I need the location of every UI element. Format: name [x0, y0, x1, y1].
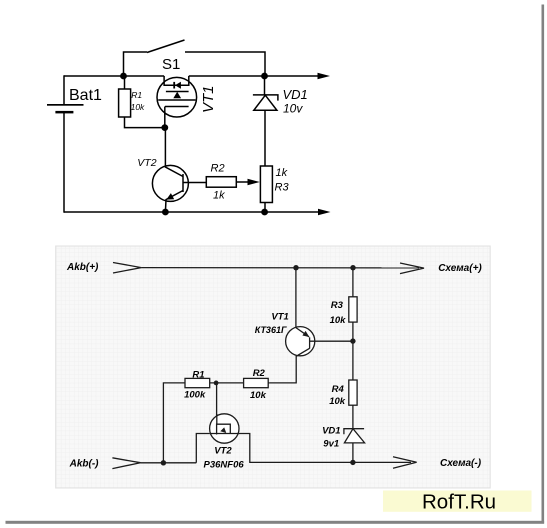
svg-text:R4: R4 [332, 384, 345, 395]
battery Bat1 plate long [47, 104, 84, 106]
wire gate down [216, 383, 218, 424]
VT2 base bar [182, 174, 184, 192]
VT1 left drain lead [164, 76, 189, 85]
svg-text:R3: R3 [331, 300, 344, 311]
wire VT1b emitter up [295, 268, 297, 328]
node junction rail-S1-VD1 [261, 73, 268, 80]
wire Akb(+) chevron [113, 263, 141, 274]
node akb+ VT1 [293, 265, 298, 270]
zener VD1b bar [344, 429, 364, 435]
node base divider [350, 338, 355, 343]
resistor R2 [206, 177, 236, 188]
svg-text:1k: 1k [213, 190, 225, 202]
svg-text:Akb(-): Akb(-) [69, 458, 100, 469]
node junction gate-R1 [161, 124, 168, 131]
VT2b cell bracket [217, 424, 231, 434]
node junction rail-S1-R1 [120, 73, 127, 80]
svg-text:10v: 10v [283, 102, 303, 116]
arrow top rail output [318, 73, 331, 80]
svg-text:S1: S1 [162, 56, 180, 73]
wire drain step [239, 434, 353, 463]
svg-text:RofT.Ru: RofT.Ru [422, 491, 496, 514]
VT1 body diode bar [173, 82, 175, 89]
wire VD1b bottom [352, 443, 354, 463]
wire VD1 to R3 [264, 110, 266, 166]
svg-text:Bat1: Bat1 [69, 87, 102, 104]
svg-text:Схема(-): Схема(-) [440, 458, 482, 469]
svg-text:VT1: VT1 [271, 312, 288, 323]
VT1b base wire [310, 340, 353, 342]
VT1b emitter arrow [302, 331, 309, 337]
zener VD1 triangle [254, 95, 277, 110]
svg-text:P36NF06: P36NF06 [204, 459, 245, 470]
resistor R3 potentiometer [260, 166, 272, 203]
svg-text:КТ361Г: КТ361Г [255, 325, 287, 335]
svg-text:R1: R1 [131, 90, 142, 100]
VT1b collector diagonal [270, 348, 310, 383]
wire top rail lower [141, 267, 419, 269]
VT1 source bar [165, 106, 189, 108]
wire R1 bottom to gate node [125, 117, 165, 128]
page shadow bottom [6, 521, 545, 524]
svg-text:Akb(+): Akb(+) [66, 262, 99, 273]
switch S1 [124, 40, 266, 76]
transistor VT2 [152, 165, 188, 201]
svg-text:9v1: 9v1 [323, 439, 339, 450]
resistor R3b [349, 297, 357, 322]
wire bottom rail [64, 211, 318, 213]
svg-text:R1: R1 [192, 369, 204, 380]
wire R4 bottom [352, 405, 354, 428]
VT2b arrow [220, 427, 226, 433]
wire top rail [64, 75, 164, 77]
VT1 channel bar2 [166, 91, 189, 93]
wire gate node to VT2 collector [164, 128, 166, 166]
arrow chevron out top [400, 263, 424, 274]
wire source step [196, 434, 209, 463]
arrow into R3 [248, 179, 260, 185]
svg-text:10k: 10k [329, 396, 346, 407]
svg-text:VD1: VD1 [283, 87, 308, 102]
svg-text:100k: 100k [184, 390, 206, 401]
resistor R2b [244, 378, 269, 387]
VT1 up arrow [173, 92, 181, 98]
VT1b emitter diagonal [296, 328, 309, 337]
svg-text:VT2: VT2 [214, 445, 232, 456]
watermark bar [383, 491, 532, 512]
node R3 bottom rail [261, 209, 268, 216]
VT1 gate lead down [164, 107, 166, 128]
node emitter-bottom rail [162, 209, 169, 216]
zener VD1 cathode bar [253, 95, 278, 101]
node schema minus [350, 460, 355, 465]
page shadow right [542, 5, 545, 524]
zener VD1b triangle [344, 429, 364, 443]
wire R3b bottom [352, 322, 354, 380]
svg-text:10k: 10k [250, 390, 267, 401]
VT2 emitter lead [165, 191, 183, 213]
svg-text:VT2: VT2 [137, 157, 156, 169]
arrow bottom rail output [318, 209, 331, 216]
wire R2b right [268, 382, 270, 384]
resistor R1b [185, 378, 210, 387]
wire Akb(-) chevron [112, 458, 140, 469]
VT2 collector lead [165, 166, 183, 177]
wire R1b-R2b link [210, 382, 244, 384]
node gate junction [214, 381, 219, 386]
resistor R4 [349, 380, 357, 405]
resistor R1 [119, 89, 131, 117]
wire schema minus [353, 461, 411, 463]
transistor VT1 mosfet circle [157, 77, 197, 117]
svg-text:R2: R2 [211, 163, 225, 175]
wire R3b top [352, 268, 354, 297]
lower schematic panel [56, 246, 491, 488]
VT2 base wire to R2 [183, 182, 206, 184]
VT1b base bar [309, 337, 311, 348]
wire VD1 top [264, 76, 266, 95]
wire R1b left riser [163, 383, 185, 463]
svg-text:10k: 10k [131, 102, 145, 112]
svg-text:10k: 10k [330, 315, 347, 326]
svg-text:Схема(+): Схема(+) [438, 263, 482, 274]
svg-text:VD1: VD1 [322, 426, 340, 437]
wire R2 to R3 arrow [236, 181, 249, 183]
node akb minus R1 [161, 460, 166, 465]
VT1 body diode arrow [175, 82, 181, 89]
wire R1 top [124, 76, 126, 89]
arrow chevron out bottom [393, 457, 417, 469]
wire R3 bottom [264, 203, 266, 213]
battery Bat1 plate short [55, 111, 73, 114]
VT2b gate inside [216, 414, 218, 424]
svg-text:R2: R2 [253, 368, 266, 379]
VT2 emitter arrow [166, 193, 174, 200]
svg-text:R3: R3 [275, 182, 290, 194]
svg-text:1k: 1k [276, 167, 288, 179]
VT1 gate bar long [158, 99, 195, 101]
transistor VT2b mosfet [210, 414, 239, 443]
VT2b channel [210, 433, 239, 435]
wire battery left bottom [63, 113, 65, 213]
wire akb minus rail [140, 462, 196, 464]
svg-text:VT1: VT1 [200, 85, 217, 113]
wire top rail right part [189, 75, 318, 77]
transistor VT1b KT361G [286, 327, 315, 356]
wire battery left top [63, 75, 65, 104]
node akb+ R3 [350, 265, 355, 270]
